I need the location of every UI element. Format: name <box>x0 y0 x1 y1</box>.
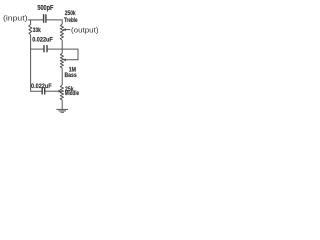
potentiometer treble 250k squiggle <box>60 24 63 40</box>
svg-text:33k: 33k <box>33 27 41 34</box>
svg-text:(input): (input) <box>3 15 28 22</box>
wire cap2 to mid wiper <box>45 90 59 92</box>
wiper bass arrowhead <box>63 58 66 61</box>
node input T-junction wire down <box>30 20 32 25</box>
wire treble bottom to junction <box>61 40 63 53</box>
svg-text:(output): (output) <box>71 27 99 34</box>
svg-text:0.022uF: 0.022uF <box>31 83 52 90</box>
wire left rail middle <box>30 35 32 91</box>
wiper mid arrowhead <box>59 90 62 93</box>
wire bass to mid <box>61 68 63 85</box>
wire cap1 branch left <box>31 48 44 50</box>
capacitor C2 0.022uF plates <box>44 45 47 52</box>
wire bass loop <box>62 49 78 60</box>
potentiometer middle 25k squiggle <box>60 85 63 100</box>
svg-text:250k: 250k <box>65 10 76 17</box>
wiper treble arrowhead <box>63 28 66 31</box>
svg-text:Middle: Middle <box>65 90 79 97</box>
capacitor C3 0.022uF plates <box>42 88 45 95</box>
wire input horizontal top <box>28 19 43 21</box>
potentiometer bass 1M squiggle <box>60 53 63 68</box>
resistor 33k squiggle <box>29 24 32 35</box>
capacitor C1 500pF plates <box>44 14 46 23</box>
svg-text:500pF: 500pF <box>37 5 54 12</box>
wire cap to right rail <box>46 20 62 24</box>
wire cap2 branch bottom left <box>31 90 42 93</box>
ground symbol <box>56 108 68 110</box>
svg-text:Bass: Bass <box>65 72 77 79</box>
svg-text:0.022uF: 0.022uF <box>32 37 53 44</box>
wiper treble output line <box>65 29 71 31</box>
wire cap1 to right rail <box>48 48 63 50</box>
svg-text:Treble: Treble <box>64 17 78 24</box>
wire mid to ground <box>61 100 63 109</box>
